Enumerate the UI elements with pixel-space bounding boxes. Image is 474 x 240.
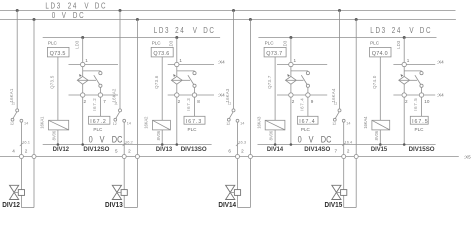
terminal X5:2 (DIV14) — [248, 155, 252, 159]
wire: sub-rail 24V units 1-2 — [43, 37, 220, 39]
indicator diamond (DIV13) — [171, 76, 182, 84]
svg-text:8: 8 — [197, 99, 200, 104]
svg-text:8V06: 8V06 — [374, 130, 379, 140]
wire: 0V return drop to X5 for DIV15 — [355, 20, 357, 155]
svg-text:16KA3: 16KA3 — [225, 88, 230, 102]
wire: PLC output to relay coil (Q73.5) — [57, 57, 59, 120]
svg-text:5: 5 — [115, 148, 118, 153]
svg-text:DIV14: DIV14 — [267, 146, 284, 153]
svg-text:16.1: 16.1 — [22, 139, 31, 144]
link diamond to contact blade — [410, 79, 418, 81]
svg-text:16.2: 16.2 — [125, 139, 134, 144]
terminal strip X4 row2 segment (DIV12) — [69, 94, 119, 96]
svg-text:12: 12 — [10, 122, 14, 126]
PLC output box Q73.5 — [47, 47, 69, 57]
svg-text:I67.3: I67.3 — [186, 98, 191, 111]
svg-text::X4: :X4 — [218, 60, 225, 65]
svg-text:14: 14 — [127, 121, 131, 125]
terminal X5:5 (DIV13) — [122, 155, 126, 159]
svg-text::X4: :X4 — [218, 93, 225, 98]
terminal strip X4 row1 segment (DIV14) — [277, 64, 327, 66]
wire: diamond to terminal 2 — [403, 84, 405, 93]
svg-text:DIV15: DIV15 — [371, 146, 388, 153]
svg-text:DIV14SO: DIV14SO — [304, 146, 330, 153]
relay coil 16KA4 — [372, 120, 390, 130]
svg-text:16KA3: 16KA3 — [256, 116, 261, 129]
svg-text:2: 2 — [178, 99, 181, 104]
wire: 24V feed drop to contact 16KA2 — [119, 11, 121, 109]
indicator diamond (DIV14) — [286, 76, 297, 84]
svg-text:Q73.5: Q73.5 — [50, 51, 66, 57]
svg-text:Q73.7: Q73.7 — [266, 51, 282, 57]
terminal 1 (DIV14) — [289, 62, 293, 66]
wire: relay coil to 0V rail — [379, 130, 381, 145]
wire: 0V return drop to X5 for DIV13 — [136, 20, 138, 155]
svg-text:DIV12SO: DIV12SO — [83, 146, 109, 153]
solenoid actuator (DIV12) — [18, 190, 24, 196]
node: 24V tap for DIV14 — [232, 9, 235, 12]
wire: 0V bottom rail units 1-2 — [43, 144, 212, 146]
svg-text:Q73.5: Q73.5 — [50, 75, 55, 89]
wire: terminal 2 down to 0V rail — [290, 97, 292, 144]
relay coil 16KA1 — [49, 120, 69, 130]
node: 24V tap for DIV13 — [119, 9, 122, 12]
svg-text:2: 2 — [128, 148, 131, 153]
wire: diamond to terminal 2 — [290, 84, 292, 93]
terminal 8 (DIV13) — [192, 93, 196, 97]
svg-text:16KA1: 16KA1 — [9, 88, 14, 102]
wire: terminal 10 down to PLC input box — [421, 97, 423, 116]
wire: relay coil to 0V rail — [57, 130, 59, 145]
svg-text:PLC: PLC — [152, 41, 162, 46]
svg-text:14: 14 — [24, 121, 28, 125]
wire: X5 to valve solenoid (DIV14) — [237, 159, 239, 190]
wire: PLC output to relay coil (Q74.0) — [379, 57, 381, 120]
svg-text:16KA4: 16KA4 — [331, 88, 336, 102]
svg-text:2: 2 — [84, 99, 87, 104]
svg-text:14: 14 — [346, 121, 350, 125]
valve DIV13 (bowtie symbol) — [112, 185, 121, 192]
wire: diamond to terminal 2 — [176, 84, 178, 93]
terminal X5:6 (DIV14) — [236, 155, 240, 159]
relay coil 16KA3 — [265, 120, 285, 130]
svg-text::X4: :X4 — [437, 60, 444, 65]
svg-text:DIV14: DIV14 — [218, 202, 236, 209]
svg-text:DIV15: DIV15 — [325, 202, 343, 209]
svg-text:Q73.6: Q73.6 — [153, 51, 169, 57]
terminal X5:2 (DIV15) — [354, 155, 358, 159]
node: 0V tap for DIV13 — [136, 18, 139, 21]
wire: LD3 drop to terminal 1 (DIV12) — [82, 38, 84, 63]
terminal strip X4 row1 segment (DIV12) — [69, 64, 119, 66]
svg-text:Q73.7: Q73.7 — [267, 75, 272, 89]
terminal strip X5 line — [0, 156, 459, 158]
wire: terminal 9 down to PLC input box — [307, 97, 309, 116]
svg-text:Q74.0: Q74.0 — [372, 51, 388, 57]
wire: LD3 drop to terminal 1 (DIV14) — [290, 38, 292, 63]
terminal 1 (DIV12) — [81, 62, 85, 66]
svg-text:DIV13SO: DIV13SO — [181, 146, 207, 153]
svg-text:I67.4: I67.4 — [299, 98, 304, 111]
svg-text:PLC: PLC — [48, 41, 58, 46]
terminal strip X4 row2 segment (DIV15) — [393, 94, 435, 96]
svg-text:2: 2 — [25, 148, 28, 153]
svg-text:16KA2: 16KA2 — [144, 116, 149, 129]
svg-text:Q74.0: Q74.0 — [372, 75, 377, 89]
svg-text:LD3: LD3 — [74, 40, 79, 49]
svg-text:12: 12 — [113, 122, 117, 126]
svg-text:I67.5: I67.5 — [412, 119, 428, 125]
svg-text:7: 7 — [103, 99, 106, 104]
wire: terminal 2 down to 0V rail — [82, 97, 84, 144]
valve DIV14 (bowtie symbol) — [226, 185, 235, 192]
svg-text:PLC: PLC — [301, 127, 311, 132]
svg-text:11: 11 — [228, 102, 232, 106]
wire: terminal1 to LED/contact branch — [82, 67, 84, 77]
node: 24V tap for DIV12 — [16, 9, 19, 12]
terminal X5:2 (DIV13) — [135, 155, 139, 159]
terminal 9 (DIV14) — [306, 93, 310, 97]
svg-text:1: 1 — [294, 58, 297, 63]
wire: 0V DC supply rail — [0, 19, 456, 21]
svg-text:16KA1: 16KA1 — [40, 116, 45, 129]
terminal 2 (DIV15) — [402, 93, 406, 97]
valve DIV15 (bowtie symbol) — [332, 185, 341, 192]
wire: terminal 7 down to PLC input box — [99, 97, 101, 116]
wire: sub-rail 24V units 3-4 — [258, 37, 436, 39]
wire: contact 14 down to X5 terminal 5 — [123, 122, 125, 154]
terminal X5:2 (DIV12) — [32, 155, 36, 159]
node: sub-rail junction DIV12 — [81, 36, 84, 39]
svg-text:PLC: PLC — [265, 41, 275, 46]
svg-text:DIV12: DIV12 — [2, 202, 20, 209]
svg-text:14: 14 — [240, 121, 244, 125]
terminal X5:7 (DIV15) — [342, 155, 346, 159]
svg-text:I67.4: I67.4 — [299, 119, 315, 125]
solenoid actuator (DIV15) — [341, 190, 347, 196]
svg-text:6: 6 — [228, 148, 231, 153]
svg-text:LD3: LD3 — [396, 40, 401, 49]
wire: PLC output to relay coil (Q73.6) — [161, 57, 163, 120]
terminal 2 (DIV13) — [175, 93, 179, 97]
svg-text:I67.2: I67.2 — [90, 119, 106, 125]
wire: terminal1 to LED/contact branch — [403, 67, 405, 77]
wire: 0V return drop to X5 for DIV12 — [33, 20, 35, 155]
svg-text:DIV12: DIV12 — [53, 146, 70, 153]
relay contact upper (DIV15) — [420, 72, 423, 75]
node: 0V tap for DIV14 — [249, 18, 252, 21]
relay contact upper (DIV12) — [99, 72, 102, 75]
relay contact upper (DIV14) — [306, 72, 309, 75]
svg-text:1: 1 — [407, 58, 410, 63]
wire: terminal 2 down to 0V rail — [176, 97, 178, 144]
wire: 24V feed drop to contact 16KA4 — [339, 11, 341, 109]
wire: contact 14 down to X5 terminal 7 — [343, 122, 345, 154]
svg-text:12: 12 — [332, 122, 336, 126]
svg-text:9: 9 — [311, 99, 314, 104]
svg-text:10: 10 — [424, 99, 430, 104]
svg-text:1: 1 — [179, 58, 182, 63]
indicator diamond (DIV12) — [77, 76, 88, 84]
relay contact upper (DIV13) — [193, 72, 196, 75]
terminal 7 (DIV12) — [98, 93, 102, 97]
wire: terminal1 to LED/contact branch — [290, 67, 292, 77]
PLC output box Q73.7 — [264, 47, 286, 57]
solenoid actuator (DIV13) — [121, 190, 127, 196]
wire: X5 to valve solenoid (DIV15) — [343, 159, 345, 190]
svg-text:16.3: 16.3 — [238, 139, 247, 144]
terminal strip X4 row2 segment (DIV14) — [277, 94, 327, 96]
terminal strip X4 row1 segment (DIV15) — [393, 64, 435, 66]
svg-text:2: 2 — [347, 148, 350, 153]
PLC input box I67.3 — [184, 116, 205, 124]
terminal 1 (DIV15) — [402, 62, 406, 66]
PLC input box I67.2 — [89, 116, 110, 124]
wire: PLC output to relay coil (Q73.7) — [274, 57, 276, 120]
svg-text:2: 2 — [292, 99, 295, 104]
svg-text:1: 1 — [85, 58, 88, 63]
svg-text:DIV15SO: DIV15SO — [409, 146, 435, 153]
link diamond to contact blade — [88, 79, 96, 81]
svg-text:I67.5: I67.5 — [413, 98, 418, 111]
node: 0V tap for DIV12 — [33, 18, 36, 21]
svg-text:PLC: PLC — [188, 127, 198, 132]
indicator diamond (DIV15) — [399, 76, 410, 84]
svg-text:8V06: 8V06 — [269, 130, 274, 140]
terminal X5:4 (DIV12) — [19, 155, 23, 159]
svg-text:11: 11 — [11, 102, 15, 106]
wire: 24V feed drop to contact 16KA3 — [233, 11, 235, 109]
svg-text:16KA4: 16KA4 — [363, 116, 368, 129]
svg-text::X5: :X5 — [464, 154, 471, 159]
svg-text:PLC: PLC — [93, 127, 103, 132]
node: 24V tap for DIV15 — [338, 9, 341, 12]
svg-text:2: 2 — [405, 99, 408, 104]
wire: diamond to terminal 2 — [82, 84, 84, 93]
svg-text:LD324VDC: LD324VDC — [154, 25, 216, 35]
terminal strip X4 row1 segment (DIV13) — [168, 64, 214, 66]
PLC output box Q73.6 — [151, 47, 173, 57]
svg-text:12: 12 — [226, 122, 230, 126]
svg-text:Q73.6: Q73.6 — [154, 75, 159, 89]
wire: X5 to valve solenoid (DIV12) — [20, 159, 22, 190]
wire: terminal 2 down to 0V rail — [403, 97, 405, 144]
valve DIV12 (bowtie symbol) — [10, 185, 19, 192]
node: 0V tap for DIV15 — [355, 18, 358, 21]
svg-text:16KA2: 16KA2 — [112, 88, 117, 102]
relay coil 16KA2 — [153, 120, 171, 130]
wire: 24V feed drop to contact 16KA1 — [16, 11, 18, 109]
svg-text:PLC: PLC — [370, 41, 380, 46]
terminal strip X4 row2 segment (DIV13) — [168, 94, 214, 96]
svg-text:DIV13: DIV13 — [156, 146, 173, 153]
svg-text:7: 7 — [335, 148, 338, 153]
svg-text:2: 2 — [241, 148, 244, 153]
wire: terminal 8 down to PLC input box — [194, 97, 196, 116]
wire: +24V DC supply rail LD3 — [0, 10, 456, 12]
svg-text:11: 11 — [114, 102, 118, 106]
svg-text:LD324VDC: LD324VDC — [370, 25, 432, 35]
svg-text:I67.2: I67.2 — [92, 98, 97, 111]
svg-text:16.4: 16.4 — [345, 139, 354, 144]
PLC input box I67.4 — [297, 116, 318, 124]
svg-text:DIV13: DIV13 — [105, 202, 123, 209]
solenoid actuator (DIV14) — [234, 190, 240, 196]
PLC input box I67.5 — [410, 116, 428, 124]
terminal 10 (DIV15) — [419, 93, 423, 97]
link diamond to contact blade — [182, 79, 190, 81]
node: sub-rail junction DIV13 — [175, 36, 178, 39]
wire: terminal1 to LED/contact branch — [176, 67, 178, 77]
wire: contact 14 down to X5 terminal 4 — [20, 122, 22, 154]
svg-text:8V06: 8V06 — [156, 130, 161, 140]
terminal 2 (DIV14) — [289, 93, 293, 97]
wire: X5 to valve solenoid (DIV13) — [123, 159, 125, 190]
terminal 2 (DIV12) — [81, 93, 85, 97]
wire: 0V return drop to X5 for DIV14 — [249, 20, 251, 155]
svg-text:11: 11 — [334, 102, 338, 106]
node: sub-rail junction DIV14 — [289, 36, 292, 39]
wire: relay coil to 0V rail — [161, 130, 163, 145]
svg-text:I67.3: I67.3 — [186, 119, 202, 125]
svg-text::X4: :X4 — [437, 93, 444, 98]
link diamond to contact blade — [296, 79, 303, 81]
wire: relay coil to 0V rail — [274, 130, 276, 145]
svg-text:PLC: PLC — [415, 127, 425, 132]
terminal 1 (DIV13) — [175, 62, 179, 66]
wire: LD3 drop to terminal 1 (DIV15) — [403, 38, 405, 63]
svg-text:8V06: 8V06 — [52, 130, 57, 140]
wire: LD3 drop to terminal 1 (DIV13) — [176, 38, 178, 63]
wire: contact 14 down to X5 terminal 6 — [237, 122, 239, 154]
PLC output box Q74.0 — [370, 47, 391, 57]
node: sub-rail junction DIV15 — [403, 36, 406, 39]
svg-text:4: 4 — [12, 148, 15, 153]
wire: 0V bottom rail units 3-4 — [258, 144, 436, 146]
